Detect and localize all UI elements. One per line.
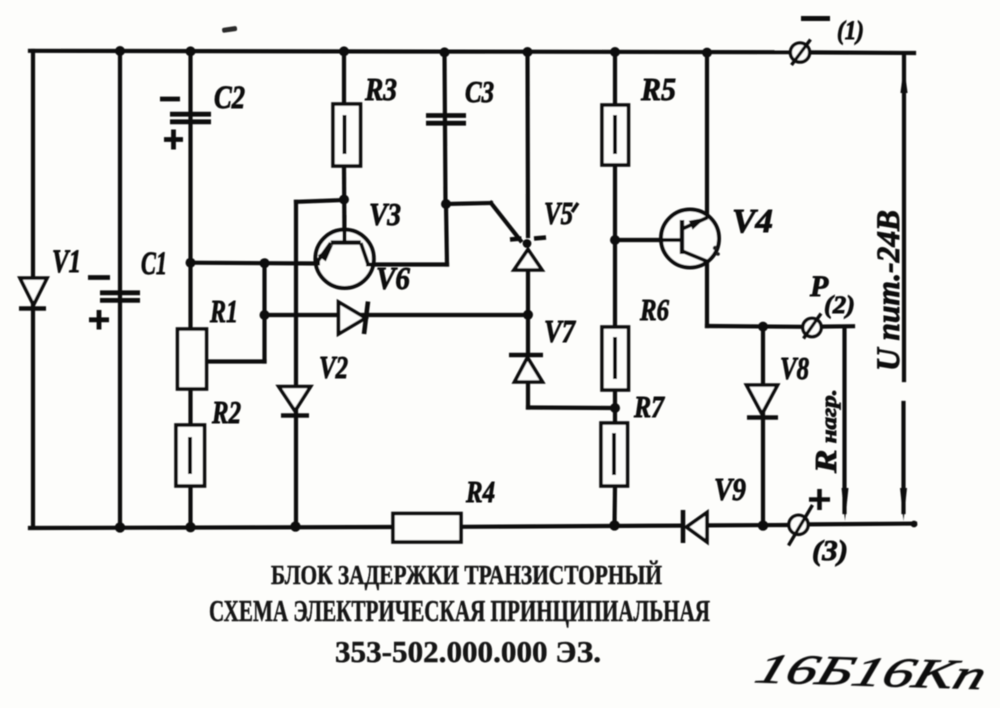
diode V8: [747, 385, 779, 418]
resistor R3: [333, 104, 361, 166]
wire V4 base: [615, 238, 682, 242]
svg-text:16Б16Кп: 16Б16Кп: [750, 646, 993, 699]
svg-text:R4: R4: [465, 474, 495, 509]
svg-text:БЛОК ЗАДЕРЖКИ ТРАНЗИСТОРНЫЙ: БЛОК ЗАДЕРЖКИ ТРАНЗИСТОРНЫЙ: [271, 559, 662, 590]
wire V5 branch top: [525, 52, 530, 236]
svg-text:C2: C2: [214, 80, 245, 116]
wire bottom rail seg4: [808, 521, 915, 526]
wire terminal2 row right: [821, 324, 853, 329]
terminal (1): [790, 40, 810, 66]
diode V2: [279, 387, 311, 416]
wire R7 bottom: [612, 486, 617, 526]
label V5: [544, 195, 578, 231]
arrow R load down: [842, 488, 849, 521]
wire V2 branch horizontal: [296, 200, 344, 202]
svg-text:C1: C1: [141, 246, 167, 282]
wire V3 collector vertical: [446, 204, 447, 265]
junction bottom rail C1: [115, 522, 125, 532]
arrow U pit up: [900, 66, 907, 93]
junction node C1 C2: [186, 258, 196, 268]
capacitor C2 polarity minus: [160, 97, 180, 102]
wire V7 anode down: [526, 382, 530, 408]
junction top rail C1: [115, 46, 125, 56]
terminal (2): [803, 314, 821, 339]
svg-text:R1: R1: [209, 293, 238, 329]
svg-text:V1: V1: [52, 244, 81, 280]
wire R3 bottom to V3 base: [342, 166, 347, 243]
diode V6: [339, 302, 369, 335]
wire V2 branch vertical: [294, 202, 298, 527]
wire V3 collector horizontal: [368, 262, 447, 266]
terminal (3): [789, 505, 813, 546]
diode V7: [509, 355, 543, 382]
wire top rail left segment: [30, 51, 790, 52]
wire V5 anode to node: [526, 270, 530, 315]
wire R3 top: [342, 51, 346, 104]
wire V4 collector vertical: [705, 52, 709, 217]
wire bottom rail seg1: [30, 527, 393, 528]
junction node A emitter row: [260, 258, 270, 268]
resistor R7: [601, 423, 628, 486]
junction C3 collector gate node: [441, 199, 451, 209]
svg-text:R6: R6: [639, 292, 669, 327]
wire C2 R1 R2 branch top: [188, 51, 192, 329]
svg-text:V7: V7: [544, 313, 577, 349]
junction top rail C3: [440, 47, 450, 57]
resistor R4: [393, 514, 461, 543]
wire node C1 to V3 emitter: [191, 261, 317, 266]
svg-text:V8: V8: [780, 350, 809, 386]
thyristor V5: [510, 238, 546, 271]
resistor R6: [602, 327, 629, 390]
svg-text:C3: C3: [465, 74, 494, 109]
junction R3 base node: [339, 195, 349, 205]
label minus at terminal 1: [801, 16, 830, 21]
junction node V6 anode: [260, 310, 270, 320]
junction V5 V7 node: [523, 310, 533, 320]
resistor R5: [602, 105, 629, 165]
wire top rail right segment: [810, 50, 914, 55]
junction top rail V5: [523, 47, 533, 57]
wire V4 emitter vertical: [705, 262, 709, 327]
svg-text:(3): (3): [812, 536, 848, 567]
svg-text:R2: R2: [211, 394, 241, 430]
junction top rail V4 collector: [702, 48, 712, 58]
wire below R2: [188, 486, 192, 527]
capacitor C1 polarity plus: [89, 310, 109, 330]
capacitor C2 polarity plus: [164, 130, 183, 150]
capacitor C2: [170, 114, 211, 122]
stray scan mark top: [222, 26, 238, 33]
arrow U pit down: [900, 488, 907, 521]
wire V5 gate horizontal: [446, 203, 491, 204]
svg-text:V9: V9: [714, 471, 746, 507]
svg-text:U пит.-24В: U пит.-24В: [871, 210, 907, 371]
svg-text:СХЕМА ЭЛЕКТРИЧЕСКАЯ ПРИНЦИПИАЛ: СХЕМА ЭЛЕКТРИЧЕСКАЯ ПРИНЦИПИАЛЬНАЯ: [209, 593, 710, 628]
svg-text:R3: R3: [364, 71, 397, 107]
junction top rail R5: [610, 47, 620, 57]
wire U pit annotation line upper: [902, 53, 906, 380]
junction terminal2 V8 node: [758, 322, 768, 332]
svg-text:V5: V5: [544, 195, 573, 231]
stray scan mark near V4: [713, 246, 720, 256]
transistor V3: [314, 215, 376, 288]
svg-text:V6: V6: [376, 260, 410, 296]
wire C3 top: [445, 53, 446, 204]
resistor R2: [176, 425, 205, 486]
wire V5 gate diagonal: [491, 203, 521, 241]
wire terminal2 row left: [707, 324, 803, 329]
wire R5 bottom through base node to R6: [613, 165, 617, 327]
label plus at terminal 3: [809, 489, 830, 510]
resistor R1: [178, 329, 207, 389]
junction R6 R7 V7 node: [610, 403, 620, 413]
wire R1 tap vertical up: [262, 263, 266, 362]
wire bottom rail seg2: [461, 526, 681, 527]
wire V5 node to V7: [526, 315, 530, 355]
capacitor C1 polarity minus: [88, 275, 110, 280]
svg-text:V4: V4: [732, 203, 773, 240]
transistor V4: [660, 210, 719, 268]
junction top rail C2: [186, 46, 196, 56]
wire bottom rail seg3: [707, 523, 789, 528]
wire R load annotation line: [842, 327, 846, 512]
wire R1 tap horizontal: [206, 359, 265, 363]
junction bottom rail V2: [290, 521, 300, 531]
junction bottom rail R2: [185, 522, 195, 532]
svg-text:V3: V3: [369, 196, 401, 232]
wire V7 to R7 node: [528, 405, 615, 410]
wire V6 anode row: [265, 313, 529, 317]
junction bottom rail V8: [758, 520, 768, 530]
diode V1: [19, 278, 47, 309]
wire left column V1 branch: [31, 51, 35, 528]
wire between R1 and R2: [188, 389, 192, 425]
wire R6 bottom to R7 top: [613, 390, 617, 423]
svg-text:R7: R7: [633, 389, 665, 424]
svg-text:(1): (1): [837, 16, 864, 45]
diode V9: [683, 510, 707, 543]
svg-text:353-502.000.000 ЭЗ.: 353-502.000.000 ЭЗ.: [335, 634, 601, 669]
svg-text:V2: V2: [319, 349, 348, 385]
svg-text:R5: R5: [640, 71, 676, 107]
wire C1 branch vertical: [118, 51, 122, 528]
junction R5 base node: [610, 235, 620, 245]
capacitor C3: [426, 116, 466, 124]
wire V8 branch: [761, 327, 765, 526]
junction top rail R3: [339, 46, 349, 56]
bottom rail end tick: [911, 521, 918, 528]
wire U pit annotation line lower: [901, 403, 905, 512]
svg-text:(2): (2): [824, 292, 855, 319]
junction bottom rail R7: [609, 520, 619, 530]
capacitor C1: [100, 293, 140, 301]
wire R5 top: [613, 52, 617, 105]
